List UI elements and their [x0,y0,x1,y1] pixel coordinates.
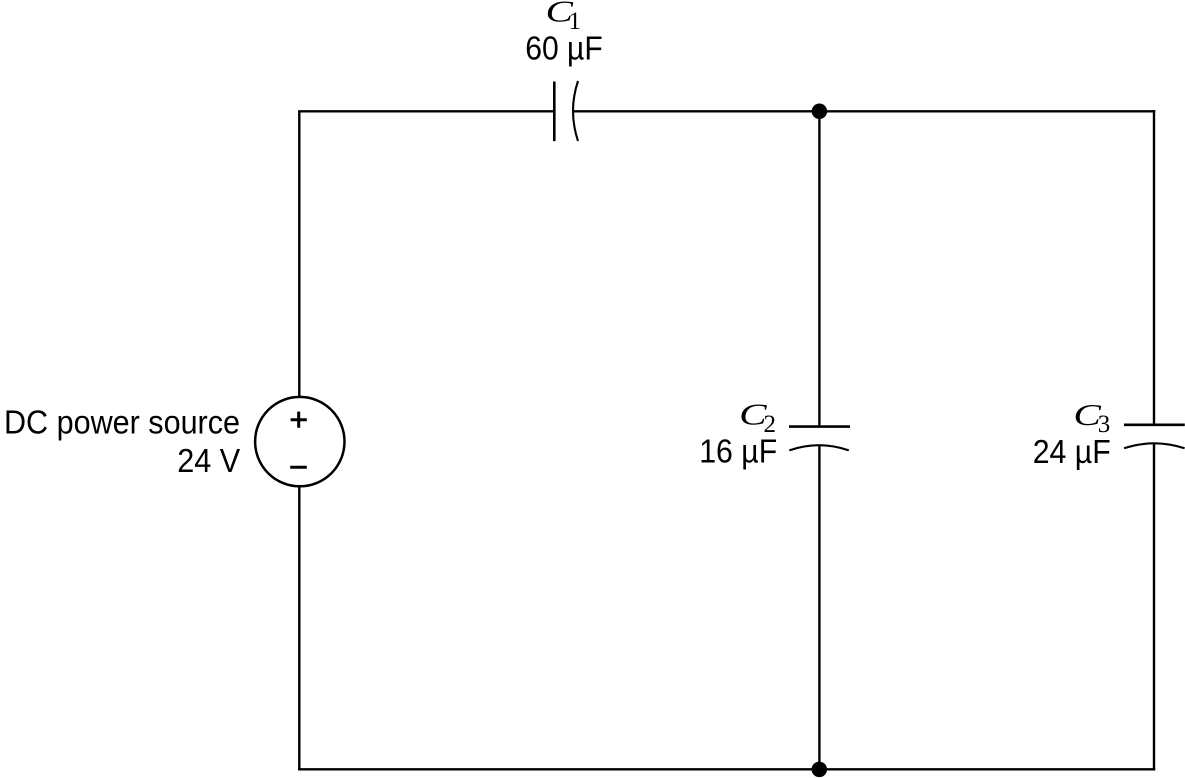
wire right vertical top (top-right corner to C3 top plate) [1153,110,1155,425]
svg-text:24 µF: 24 µF [1033,433,1111,470]
DC power source V1 circle [255,397,344,486]
wire right vertical bottom (C3 bottom plate to bottom-right corner) [1153,443,1155,770]
plus terminal [291,412,307,428]
wire top left horizontal (corner to C1 left plate) [298,110,554,112]
capacitor C2 flat plate [789,425,850,428]
capacitor C1 flat plate [553,82,556,142]
wire left vertical bottom (bottom-left corner to source - terminal) [298,486,300,771]
svg-text:DC power source: DC power source [4,404,240,441]
capacitor C3 flat plate [1124,423,1185,426]
capacitor C3 curved plate [1124,443,1185,448]
svg-text:16 µF: 16 µF [699,433,777,470]
capacitor C1 curved plate [573,81,578,141]
svg-text:24 V: 24 V [177,442,240,479]
wire middle branch bottom (C2 bottom plate to node B) [818,445,820,769]
svg-text:60 µF: 60 µF [525,30,603,67]
node A junction dot [812,104,828,120]
minus terminal [290,466,307,469]
capacitor C2 curved plate [789,445,849,450]
wire top right horizontal (C1 right plate through node A to top-right corner) [573,110,1155,112]
wire bottom horizontal (bottom-right corner through node B to bottom-left corner) [298,768,1155,770]
wire left vertical top (source + terminal to top-left corner) [298,111,300,397]
wire middle branch top (node A to C2 top plate) [818,111,820,426]
node B junction dot [812,762,828,778]
